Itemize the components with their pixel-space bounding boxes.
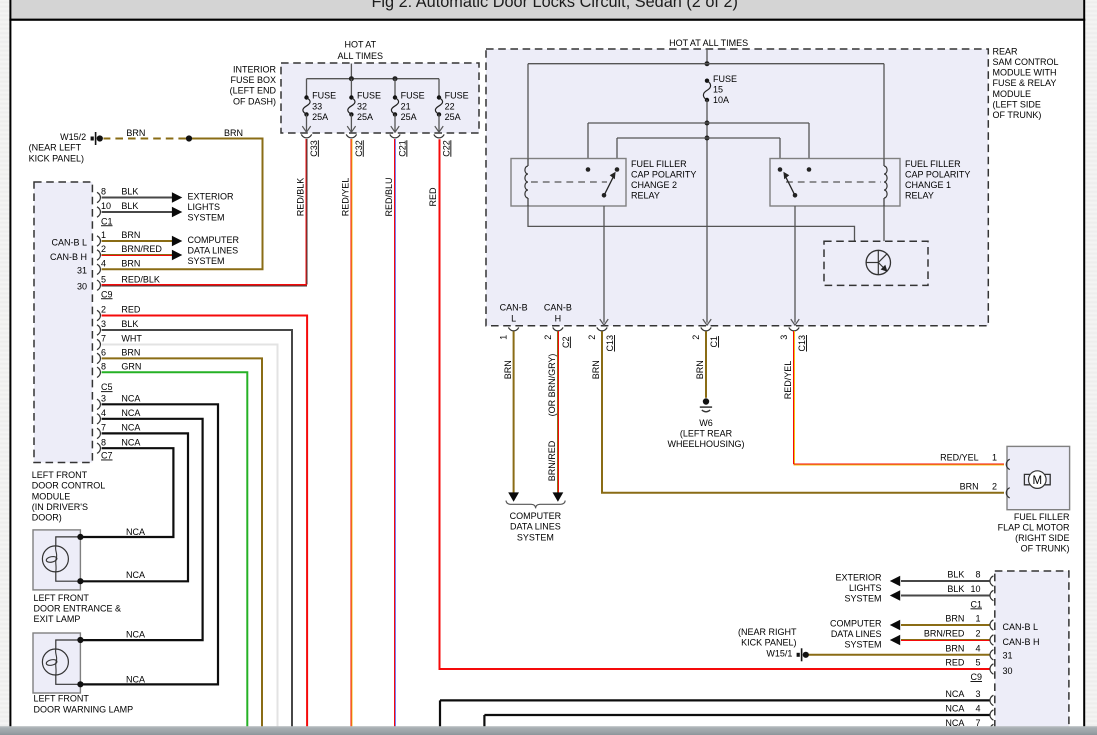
svg-text:1: 1 <box>499 335 509 340</box>
svg-text:31: 31 <box>77 266 87 276</box>
svg-text:W15/2: W15/2 <box>60 132 86 142</box>
svg-text:BLK: BLK <box>121 187 138 197</box>
svg-text:C1: C1 <box>101 216 113 226</box>
svg-text:2: 2 <box>101 244 106 254</box>
svg-text:C5: C5 <box>101 382 113 392</box>
svg-text:KICK PANEL): KICK PANEL) <box>741 637 796 647</box>
svg-text:CAN-B: CAN-B <box>500 303 528 313</box>
svg-text:COMPUTER: COMPUTER <box>510 511 562 521</box>
svg-text:COMPUTER: COMPUTER <box>830 618 882 628</box>
svg-text:25A: 25A <box>401 112 417 122</box>
svg-text:8: 8 <box>101 362 106 372</box>
svg-text:DOOR ENTRANCE &: DOOR ENTRANCE & <box>34 604 122 614</box>
svg-text:10A: 10A <box>713 95 729 105</box>
svg-text:(RIGHT SIDE: (RIGHT SIDE <box>1015 533 1069 543</box>
svg-text:3: 3 <box>975 689 980 699</box>
svg-text:BRN: BRN <box>126 128 145 138</box>
svg-text:BLK: BLK <box>121 201 138 211</box>
svg-text:1: 1 <box>101 230 106 240</box>
svg-text:6: 6 <box>101 348 106 358</box>
svg-text:C2: C2 <box>561 337 571 349</box>
svg-text:8: 8 <box>975 570 980 580</box>
svg-text:CAP POLARITY: CAP POLARITY <box>631 170 696 180</box>
svg-text:FUEL FILLER: FUEL FILLER <box>631 159 687 169</box>
svg-text:CHANGE 2: CHANGE 2 <box>631 180 677 190</box>
svg-text:C22: C22 <box>441 140 451 157</box>
svg-text:DOOR WARNING LAMP: DOOR WARNING LAMP <box>34 704 134 714</box>
svg-text:BRN: BRN <box>121 259 140 269</box>
svg-text:NCA: NCA <box>126 630 145 640</box>
svg-text:DOOR): DOOR) <box>32 513 62 523</box>
svg-text:BRN: BRN <box>945 614 964 624</box>
svg-text:NCA: NCA <box>121 437 140 447</box>
svg-text:RELAY: RELAY <box>905 191 934 201</box>
svg-text:30: 30 <box>77 282 87 292</box>
svg-text:MODULE WITH: MODULE WITH <box>993 68 1057 78</box>
svg-text:COMPUTER: COMPUTER <box>188 235 240 245</box>
svg-text:FUEL FILLER: FUEL FILLER <box>1014 512 1070 522</box>
svg-text:BRN: BRN <box>121 230 140 240</box>
svg-text:W15/1: W15/1 <box>766 648 792 658</box>
svg-text:C9: C9 <box>970 672 982 682</box>
svg-text:CHANGE 1: CHANGE 1 <box>905 180 951 190</box>
svg-text:BLK: BLK <box>121 319 138 329</box>
svg-text:25A: 25A <box>357 112 373 122</box>
svg-text:REAR: REAR <box>993 46 1019 56</box>
svg-text:SYSTEM: SYSTEM <box>188 256 225 266</box>
svg-text:10: 10 <box>101 201 111 211</box>
svg-text:DATA LINES: DATA LINES <box>831 629 882 639</box>
svg-text:1: 1 <box>992 452 997 462</box>
svg-text:RED: RED <box>121 305 141 315</box>
svg-text:BRN: BRN <box>121 348 140 358</box>
svg-text:3: 3 <box>101 319 106 329</box>
svg-text:RED/BLK: RED/BLK <box>295 178 305 217</box>
svg-text:RED/YEL: RED/YEL <box>340 178 350 217</box>
svg-text:NCA: NCA <box>126 527 145 537</box>
svg-text:FUEL FILLER: FUEL FILLER <box>905 159 961 169</box>
svg-text:4: 4 <box>101 408 106 418</box>
svg-text:BRN: BRN <box>960 482 979 492</box>
svg-text:NCA: NCA <box>126 570 145 580</box>
svg-text:BRN: BRN <box>591 360 601 379</box>
svg-text:C13: C13 <box>797 335 807 352</box>
svg-text:L: L <box>511 313 516 323</box>
svg-text:NCA: NCA <box>121 394 140 404</box>
svg-text:BRN/RED: BRN/RED <box>924 629 965 639</box>
svg-text:LEFT FRONT: LEFT FRONT <box>34 694 90 704</box>
svg-text:DOOR CONTROL: DOOR CONTROL <box>32 481 106 491</box>
svg-text:BLK: BLK <box>947 584 964 594</box>
svg-text:CAN-B H: CAN-B H <box>1003 637 1040 647</box>
svg-text:SAM CONTROL: SAM CONTROL <box>993 57 1059 67</box>
svg-text:MODULE: MODULE <box>993 89 1032 99</box>
svg-text:BLK: BLK <box>947 570 964 580</box>
svg-text:OF TRUNK): OF TRUNK) <box>993 110 1042 120</box>
svg-text:(OR BRN/GRY): (OR BRN/GRY) <box>547 354 557 417</box>
svg-text:33: 33 <box>312 101 322 111</box>
svg-text:SYSTEM: SYSTEM <box>517 532 554 542</box>
svg-text:1: 1 <box>975 614 980 624</box>
svg-text:(IN DRIVER'S: (IN DRIVER'S <box>32 502 88 512</box>
svg-text:FUSE: FUSE <box>445 91 469 101</box>
svg-text:C33: C33 <box>309 140 319 157</box>
svg-text:RED/YEL: RED/YEL <box>940 452 979 462</box>
svg-text:FUSE: FUSE <box>713 74 737 84</box>
svg-text:2: 2 <box>691 335 701 340</box>
svg-text:SYSTEM: SYSTEM <box>844 594 881 604</box>
svg-text:5: 5 <box>975 658 980 668</box>
svg-text:Fig 2: Automatic Door Locks Ci: Fig 2: Automatic Door Locks Circuit, Sed… <box>371 0 738 11</box>
svg-text:EXTERIOR: EXTERIOR <box>188 192 235 202</box>
svg-text:SYSTEM: SYSTEM <box>188 213 225 223</box>
svg-text:RED/BLK: RED/BLK <box>121 274 160 284</box>
svg-text:2: 2 <box>975 629 980 639</box>
svg-text:ALL TIMES: ALL TIMES <box>338 51 384 61</box>
svg-text:BRN: BRN <box>503 360 513 379</box>
svg-text:25A: 25A <box>445 112 461 122</box>
svg-text:SYSTEM: SYSTEM <box>844 639 881 649</box>
svg-text:W6: W6 <box>699 418 713 428</box>
svg-text:LEFT FRONT: LEFT FRONT <box>32 470 88 480</box>
svg-text:3: 3 <box>101 394 106 404</box>
svg-text:2: 2 <box>992 482 997 492</box>
svg-text:31: 31 <box>1003 650 1013 660</box>
svg-text:H: H <box>555 313 562 323</box>
svg-text:WHEELHOUSING): WHEELHOUSING) <box>667 439 744 449</box>
svg-text:FUSE: FUSE <box>357 91 381 101</box>
svg-text:HOT AT: HOT AT <box>344 40 376 50</box>
svg-text:RED: RED <box>428 187 438 207</box>
svg-text:EXTERIOR: EXTERIOR <box>835 572 882 582</box>
svg-text:10: 10 <box>970 584 980 594</box>
svg-text:2: 2 <box>543 335 553 340</box>
svg-text:4: 4 <box>101 259 106 269</box>
svg-text:8: 8 <box>101 187 106 197</box>
svg-text:2: 2 <box>587 335 597 340</box>
svg-text:LIGHTS: LIGHTS <box>188 202 221 212</box>
svg-text:RELAY: RELAY <box>631 191 660 201</box>
svg-text:C13: C13 <box>605 335 615 352</box>
svg-text:CAP POLARITY: CAP POLARITY <box>905 170 970 180</box>
svg-text:22: 22 <box>445 101 455 111</box>
svg-text:OF DASH): OF DASH) <box>233 96 276 106</box>
svg-text:RED/BLU: RED/BLU <box>384 177 394 216</box>
svg-text:8: 8 <box>101 437 106 447</box>
svg-text:NCA: NCA <box>945 689 964 699</box>
svg-text:CAN-B L: CAN-B L <box>1003 622 1039 632</box>
svg-text:DATA LINES: DATA LINES <box>188 246 239 256</box>
svg-text:(NEAR LEFT: (NEAR LEFT <box>29 143 82 153</box>
svg-text:DATA LINES: DATA LINES <box>510 522 561 532</box>
svg-text:BRN: BRN <box>945 644 964 654</box>
svg-text:7: 7 <box>101 334 106 344</box>
svg-text:FUSE: FUSE <box>401 91 425 101</box>
svg-text:NCA: NCA <box>945 704 964 714</box>
svg-text:(LEFT REAR: (LEFT REAR <box>680 429 733 439</box>
svg-text:C7: C7 <box>101 451 113 461</box>
svg-text:MODULE: MODULE <box>32 491 71 501</box>
svg-text:4: 4 <box>975 644 980 654</box>
svg-text:C9: C9 <box>101 289 113 299</box>
svg-text:C1: C1 <box>970 599 982 609</box>
svg-text:WHT: WHT <box>121 334 142 344</box>
svg-text:C1: C1 <box>709 336 719 348</box>
svg-text:7: 7 <box>101 423 106 433</box>
svg-text:M: M <box>1033 475 1043 487</box>
svg-text:LIGHTS: LIGHTS <box>849 583 882 593</box>
svg-text:KICK PANEL): KICK PANEL) <box>29 153 84 163</box>
svg-text:(NEAR RIGHT: (NEAR RIGHT <box>738 627 797 637</box>
svg-text:RED: RED <box>945 658 965 668</box>
svg-text:RED/YEL: RED/YEL <box>783 361 793 400</box>
svg-text:BRN: BRN <box>224 128 243 138</box>
svg-text:FUSE BOX: FUSE BOX <box>230 75 276 85</box>
svg-text:C21: C21 <box>397 140 407 157</box>
svg-text:CAN-B H: CAN-B H <box>50 252 87 262</box>
svg-text:3: 3 <box>779 335 789 340</box>
svg-text:2: 2 <box>101 305 106 315</box>
svg-text:FUSE: FUSE <box>312 91 336 101</box>
svg-text:NCA: NCA <box>126 675 145 685</box>
svg-text:GRN: GRN <box>121 362 141 372</box>
svg-text:BRN: BRN <box>695 360 705 379</box>
svg-text:21: 21 <box>401 101 411 111</box>
svg-text:CAN-B L: CAN-B L <box>51 237 87 247</box>
svg-text:(LEFT SIDE: (LEFT SIDE <box>993 99 1041 109</box>
svg-text:25A: 25A <box>312 112 328 122</box>
svg-text:4: 4 <box>975 704 980 714</box>
svg-text:NCA: NCA <box>121 408 140 418</box>
svg-text:FLAP CL MOTOR: FLAP CL MOTOR <box>998 523 1070 533</box>
svg-text:BRN/RED: BRN/RED <box>547 440 557 481</box>
svg-text:NCA: NCA <box>121 423 140 433</box>
svg-text:INTERIOR: INTERIOR <box>233 65 277 75</box>
svg-text:EXIT LAMP: EXIT LAMP <box>34 614 81 624</box>
svg-text:BRN/RED: BRN/RED <box>121 244 162 254</box>
svg-text:FUSE & RELAY: FUSE & RELAY <box>993 78 1057 88</box>
svg-text:32: 32 <box>357 101 367 111</box>
svg-text:30: 30 <box>1003 666 1013 676</box>
svg-text:LEFT FRONT: LEFT FRONT <box>34 593 90 603</box>
svg-text:15: 15 <box>713 84 723 94</box>
svg-text:C32: C32 <box>354 140 364 157</box>
svg-text:HOT AT ALL TIMES: HOT AT ALL TIMES <box>669 38 748 48</box>
svg-text:CAN-B: CAN-B <box>544 303 572 313</box>
svg-text:(LEFT END: (LEFT END <box>230 86 277 96</box>
svg-text:OF TRUNK): OF TRUNK) <box>1021 544 1070 554</box>
svg-text:5: 5 <box>101 274 106 284</box>
